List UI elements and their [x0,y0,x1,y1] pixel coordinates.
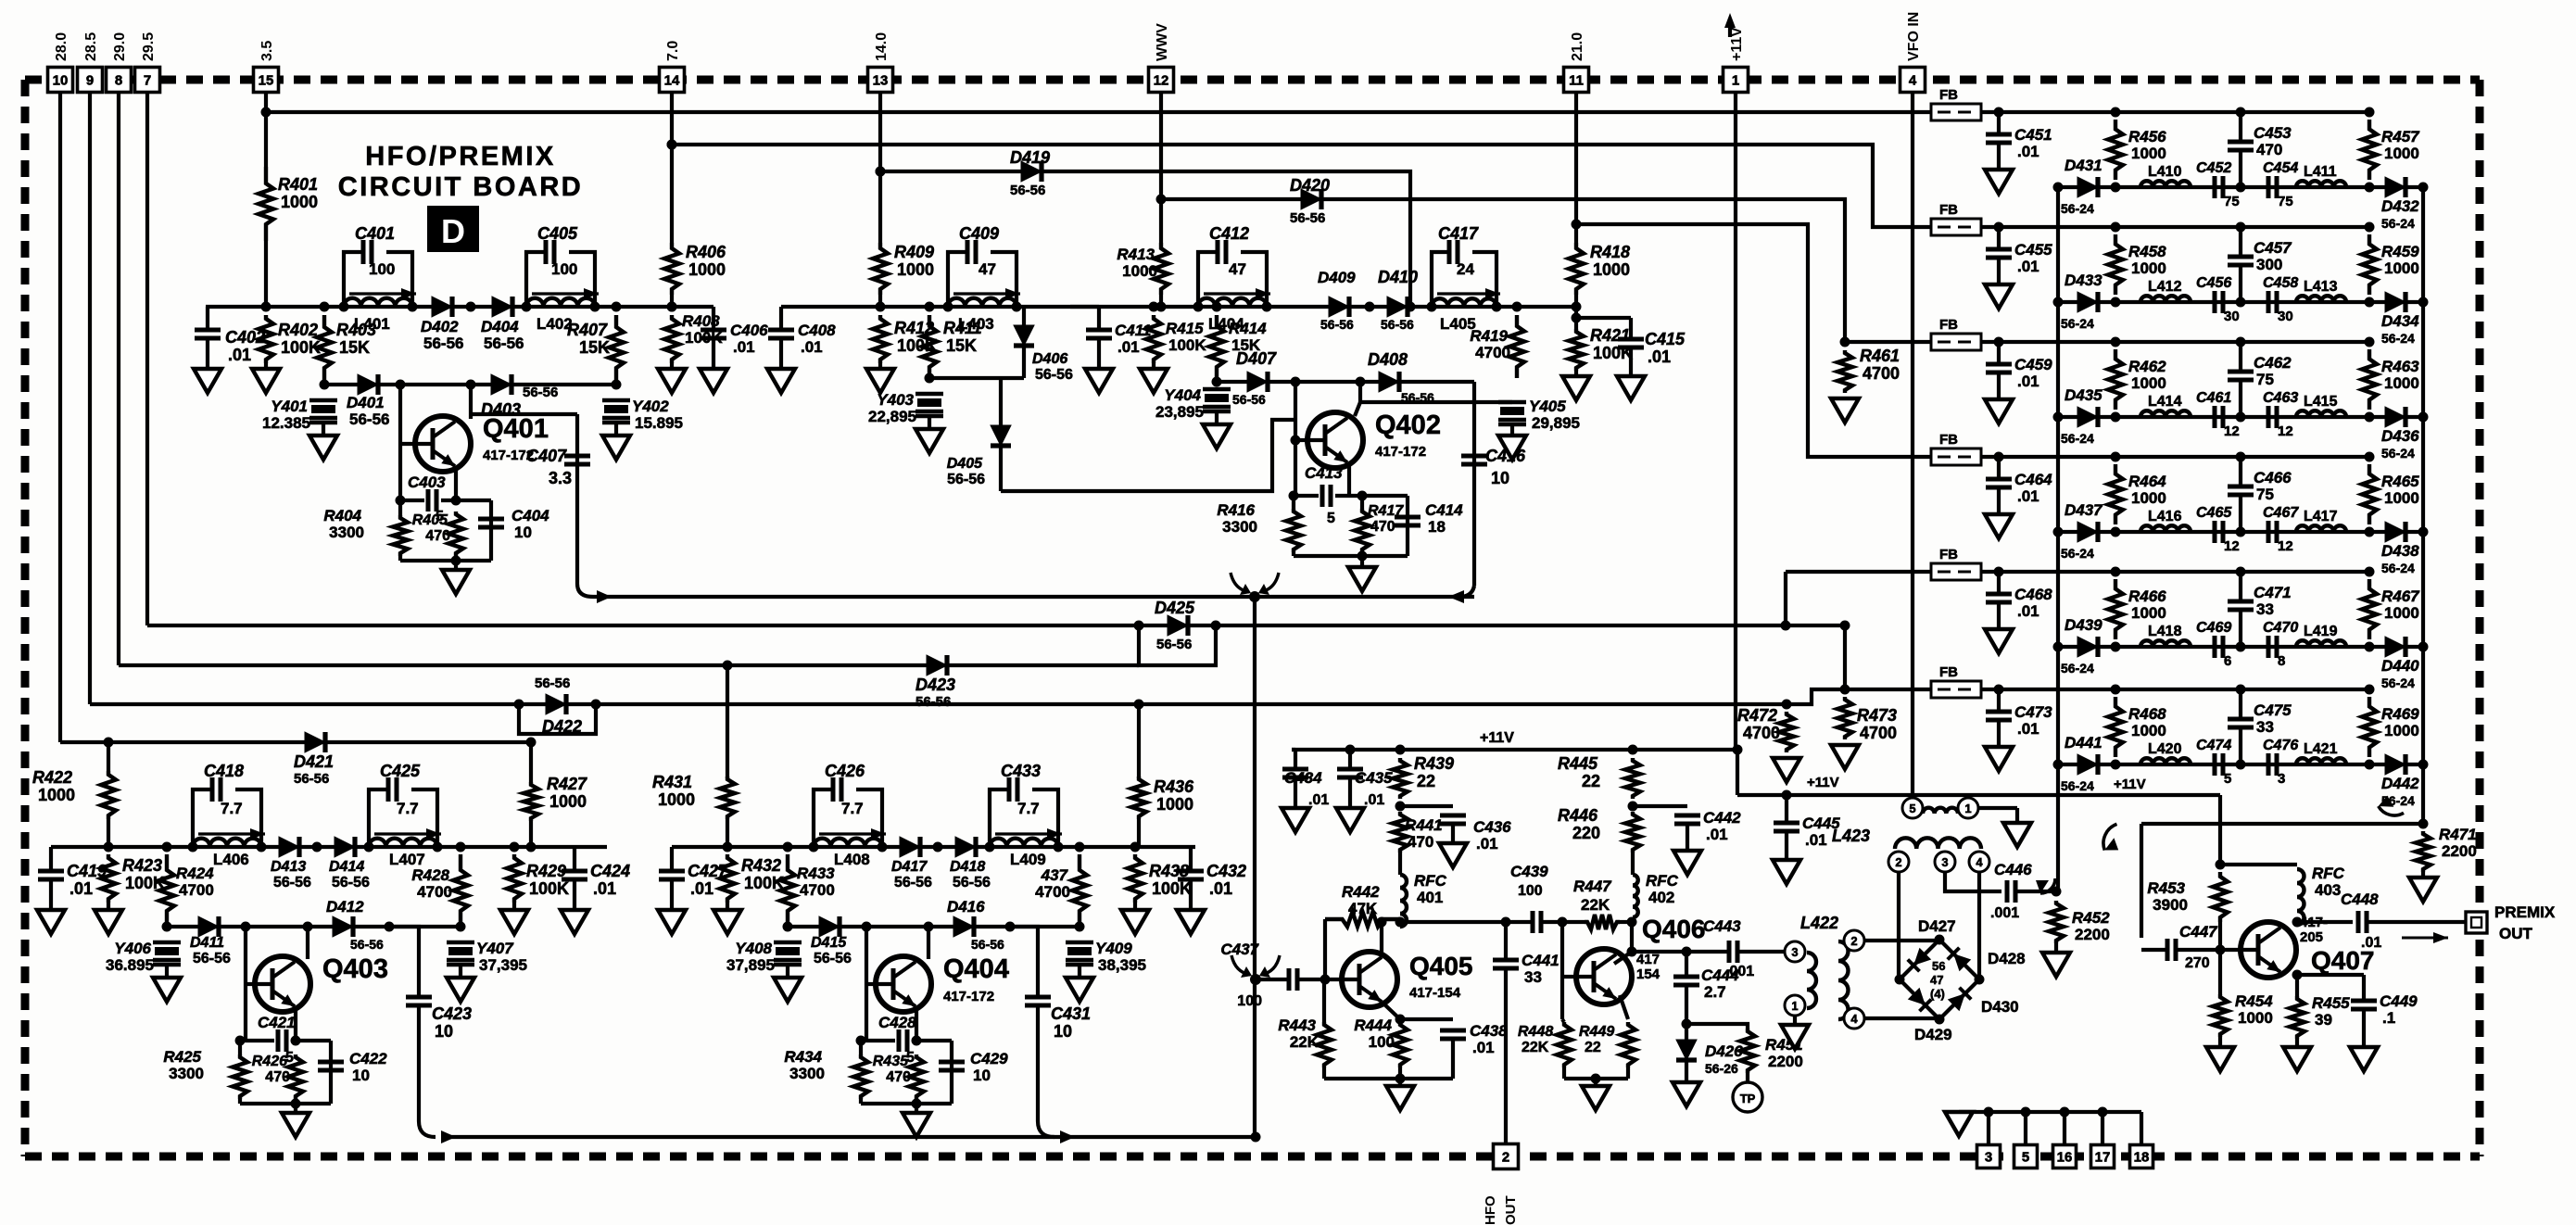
svg-text:R416: R416 [1217,501,1255,519]
svg-text:33: 33 [1524,968,1542,986]
svg-text:C408: C408 [798,322,836,339]
svg-text:7: 7 [144,73,151,89]
svg-text:36.895: 36.895 [106,956,154,974]
svg-text:FB: FB [1939,202,1958,218]
svg-text:2: 2 [1850,934,1857,948]
svg-text:D419: D419 [1010,148,1050,167]
svg-text:R449: R449 [1579,1024,1614,1040]
svg-text:30: 30 [2224,309,2240,324]
svg-text:D418: D418 [950,859,985,875]
svg-text:270: 270 [2185,955,2210,971]
svg-text:R418: R418 [1590,243,1630,261]
svg-text:Y402: Y402 [632,398,669,415]
svg-text:300: 300 [2256,256,2282,273]
svg-text:R446: R446 [1558,806,1598,825]
svg-text:R468: R468 [2128,705,2166,723]
svg-text:417-: 417- [2300,915,2328,930]
svg-text:C425: C425 [380,762,421,780]
svg-text:R458: R458 [2128,243,2166,260]
svg-text:C421: C421 [258,1014,296,1031]
svg-text:100K: 100K [1168,336,1206,354]
svg-text:470: 470 [1408,833,1433,851]
svg-text:R441: R441 [1405,816,1443,834]
svg-text:R465: R465 [2381,473,2419,490]
svg-text:VFO IN: VFO IN [1906,12,1922,61]
svg-text:Y407: Y407 [476,940,514,957]
svg-text:7.0: 7.0 [665,41,681,61]
svg-text:22K: 22K [1290,1033,1320,1051]
svg-text:.01: .01 [2017,720,2039,738]
svg-text:R436: R436 [1154,777,1194,796]
svg-text:56-56: 56-56 [1320,317,1354,332]
svg-text:D411: D411 [190,935,224,951]
svg-text:C464: C464 [2014,471,2052,488]
svg-text:47: 47 [1930,973,1943,987]
svg-text:10: 10 [352,1067,370,1084]
svg-text:C439: C439 [1510,863,1548,880]
svg-text:417: 417 [1636,952,1660,967]
svg-text:L411: L411 [2304,164,2337,180]
svg-text:56-56: 56-56 [1156,637,1192,652]
svg-text:56-56: 56-56 [193,951,231,966]
svg-text:Q402: Q402 [1375,410,1441,440]
svg-text:56-56: 56-56 [915,694,951,710]
svg-text:R472: R472 [1737,706,1777,725]
svg-text:R424: R424 [176,865,214,882]
svg-text:R405: R405 [412,512,448,528]
svg-text:56-56: 56-56 [894,875,932,890]
svg-text:1000: 1000 [658,790,695,809]
svg-text:D441: D441 [2065,734,2102,751]
svg-text:22: 22 [1585,1040,1601,1055]
svg-text:403: 403 [2315,881,2341,899]
svg-text:1000: 1000 [281,193,318,211]
svg-text:56-24: 56-24 [2381,331,2415,346]
svg-text:D410: D410 [1378,268,1418,286]
svg-text:100: 100 [369,260,395,278]
svg-text:R425: R425 [163,1048,201,1066]
svg-text:1000: 1000 [1593,260,1630,279]
svg-text:22: 22 [1417,772,1435,790]
svg-text:D433: D433 [2065,272,2102,289]
svg-text:R422: R422 [32,768,72,787]
svg-text:205: 205 [2300,929,2323,945]
svg-text:R429: R429 [526,862,566,880]
svg-text:7.7: 7.7 [841,800,864,817]
svg-text:5: 5 [1327,511,1335,526]
svg-text:C456: C456 [2196,275,2231,291]
svg-text:Q406: Q406 [1642,915,1706,943]
svg-text:.01: .01 [69,879,93,898]
svg-text:R419: R419 [1470,327,1508,345]
svg-text:1000: 1000 [2384,259,2419,277]
svg-text:5: 5 [2224,771,2231,787]
svg-text:D414: D414 [329,859,364,875]
svg-text:L415: L415 [2304,394,2338,410]
svg-text:56-56: 56-56 [953,875,991,890]
svg-text:30: 30 [2278,309,2293,324]
svg-text:D427: D427 [1918,917,1956,935]
svg-text:1000: 1000 [549,792,587,811]
svg-text:R448: R448 [1518,1024,1553,1040]
svg-text:D431: D431 [2065,157,2102,174]
svg-text:56-56: 56-56 [332,875,370,890]
svg-text:C436: C436 [1473,818,1511,836]
svg-text:.01: .01 [801,338,823,356]
svg-text:Q403: Q403 [322,954,388,984]
svg-text:3: 3 [1791,945,1798,959]
svg-text:56-24: 56-24 [2061,546,2094,561]
svg-text:C452: C452 [2196,160,2231,176]
svg-text:10: 10 [435,1022,453,1041]
svg-text:R444: R444 [1354,1017,1392,1034]
svg-text:Q407: Q407 [2311,946,2375,975]
svg-text:33: 33 [2256,718,2274,736]
svg-text:14.0: 14.0 [874,32,890,61]
svg-text:8: 8 [2278,653,2285,669]
svg-text:L401: L401 [354,315,390,333]
svg-text:Y401: Y401 [271,398,308,415]
svg-text:100K: 100K [1152,879,1192,898]
svg-text:7.7: 7.7 [397,800,419,817]
svg-text:56-56: 56-56 [947,472,985,487]
svg-text:C414: C414 [1425,501,1463,519]
svg-text:.01: .01 [733,338,755,356]
svg-text:402: 402 [1648,889,1674,906]
svg-text:15K: 15K [579,338,610,357]
svg-text:C441: C441 [1522,952,1559,969]
svg-text:FB: FB [1939,87,1958,103]
svg-text:3300: 3300 [329,524,364,541]
svg-text:C469: C469 [2196,620,2231,636]
svg-text:56-56: 56-56 [350,937,384,952]
svg-text:15K: 15K [339,338,370,357]
svg-text:56-24: 56-24 [2061,661,2094,676]
svg-text:R426: R426 [252,1054,287,1069]
svg-text:437: 437 [1041,866,1069,884]
svg-text:3: 3 [2278,771,2285,787]
svg-text:2200: 2200 [2442,842,2477,860]
svg-text:1000: 1000 [2131,259,2166,277]
svg-text:D438: D438 [2381,542,2419,560]
svg-text:D435: D435 [2065,386,2102,404]
svg-text:7.7: 7.7 [1017,800,1040,817]
svg-text:D407: D407 [1236,349,1277,368]
svg-text:3300: 3300 [789,1065,825,1082]
svg-text:3900: 3900 [2153,896,2188,914]
svg-text:8: 8 [115,73,122,89]
svg-text:4700: 4700 [800,881,835,899]
svg-text:56-56: 56-56 [971,937,1004,952]
svg-text:56-56: 56-56 [1290,210,1325,226]
svg-text:1: 1 [1791,999,1798,1013]
svg-text:R402: R402 [278,321,318,339]
svg-text:56-24: 56-24 [2061,201,2094,216]
svg-text:L416: L416 [2148,509,2182,524]
svg-text:Y405: Y405 [1529,398,1566,415]
svg-text:C471: C471 [2254,584,2292,601]
svg-text:D428: D428 [1988,950,2026,967]
svg-text:37,895: 37,895 [726,956,775,974]
svg-text:15: 15 [259,73,274,89]
svg-text:.01: .01 [2017,143,2039,160]
svg-text:HFO: HFO [1483,1195,1498,1225]
svg-text:R423: R423 [122,856,162,875]
svg-text:15.895: 15.895 [635,414,683,432]
svg-text:FB: FB [1939,547,1958,562]
svg-text:3: 3 [1941,855,1948,869]
svg-text:C466: C466 [2254,469,2292,486]
svg-text:56-56: 56-56 [535,676,570,691]
svg-text:C437: C437 [1220,941,1259,958]
svg-text:C465: C465 [2196,505,2232,521]
svg-text:4: 4 [1909,73,1917,89]
svg-text:39: 39 [2315,1011,2332,1029]
svg-text:56-56: 56-56 [484,335,524,352]
svg-text:154: 154 [1636,966,1661,982]
svg-text:21.0: 21.0 [1570,32,1585,61]
svg-text:4700: 4700 [1035,883,1070,901]
svg-text:C438: C438 [1470,1022,1508,1040]
svg-text:R459: R459 [2381,243,2419,260]
svg-text:C429: C429 [970,1050,1008,1067]
svg-text:3300: 3300 [169,1065,204,1082]
svg-text:56-26: 56-26 [1705,1061,1738,1076]
svg-text:L414: L414 [2148,394,2182,410]
svg-text:1000: 1000 [38,786,75,804]
svg-text:470: 470 [886,1069,911,1085]
svg-text:R434: R434 [784,1048,822,1066]
svg-text:56-24: 56-24 [2381,676,2415,690]
svg-text:56-24: 56-24 [2381,216,2415,231]
svg-text:D405: D405 [947,456,983,472]
svg-text:12: 12 [2278,538,2293,554]
svg-text:WWV: WWV [1155,23,1170,61]
svg-text:C423: C423 [432,1004,472,1023]
svg-text:C404: C404 [511,507,549,524]
svg-text:D423: D423 [915,676,955,694]
svg-text:.01: .01 [1805,831,1827,849]
svg-text:C428: C428 [878,1014,916,1031]
svg-text:470: 470 [1370,519,1395,535]
svg-text:C463: C463 [2263,390,2298,406]
svg-text:1: 1 [1732,73,1739,89]
svg-text:Q404: Q404 [943,954,1009,984]
svg-text:56: 56 [1932,959,1945,973]
svg-text:47: 47 [979,260,996,278]
svg-text:417-172: 417-172 [1375,444,1426,460]
svg-text:L410: L410 [2148,164,2182,180]
svg-text:75: 75 [2278,194,2293,209]
svg-text:1000: 1000 [1122,262,1157,280]
svg-text:R455: R455 [2312,994,2350,1012]
svg-text:18: 18 [1428,518,1446,536]
svg-text:R431: R431 [652,773,692,791]
svg-text:L422: L422 [1800,914,1838,932]
svg-text:R462: R462 [2128,358,2166,375]
svg-text:47K: 47K [1348,900,1378,917]
svg-text:29.5: 29.5 [141,32,157,61]
svg-text:C412: C412 [1209,224,1249,243]
svg-text:4700: 4700 [1475,344,1510,361]
svg-text:C462: C462 [2254,354,2292,372]
svg-text:R456: R456 [2128,128,2166,145]
svg-text:56-56: 56-56 [1035,367,1073,383]
svg-text:15K: 15K [946,336,977,355]
svg-text:C434: C434 [1284,769,1322,787]
svg-text:470: 470 [425,528,450,544]
svg-text:56-56: 56-56 [1010,183,1045,198]
svg-text:100: 100 [551,260,577,278]
svg-text:D409: D409 [1318,269,1356,286]
svg-text:D439: D439 [2065,616,2102,634]
svg-text:4700: 4700 [1743,724,1780,742]
svg-text:L420: L420 [2148,741,2182,757]
svg-text:R439: R439 [1414,754,1454,773]
svg-text:1000: 1000 [2384,604,2419,622]
svg-text:FB: FB [1939,317,1958,333]
svg-text:CIRCUIT BOARD: CIRCUIT BOARD [338,172,584,202]
svg-text:L412: L412 [2148,279,2182,295]
svg-text:FB: FB [1939,432,1958,448]
svg-text:Q401: Q401 [483,414,549,444]
svg-text:TP: TP [1740,1092,1756,1105]
svg-text:75: 75 [2256,371,2274,388]
svg-text:R442: R442 [1342,883,1380,901]
svg-text:C447: C447 [2179,923,2218,941]
svg-text:C418: C418 [204,762,244,780]
svg-text:220: 220 [1572,824,1600,842]
svg-text:56-24: 56-24 [2381,561,2415,575]
svg-text:C431: C431 [1051,1004,1091,1023]
svg-text:L408: L408 [834,851,870,868]
svg-text:.01: .01 [2017,373,2039,390]
svg-text:R415: R415 [1166,320,1204,337]
svg-text:56-56: 56-56 [349,410,389,428]
svg-text:C449: C449 [2380,992,2418,1010]
svg-text:D417: D417 [891,859,928,875]
svg-text:PREMIX: PREMIX [2494,903,2556,921]
svg-text:417-154: 417-154 [1409,985,1461,1001]
svg-text:7.7: 7.7 [221,800,243,817]
svg-text:R453: R453 [2147,879,2185,897]
svg-text:R457: R457 [2381,128,2420,145]
svg-text:D415: D415 [811,935,847,951]
svg-text:+11V: +11V [2114,777,2146,792]
svg-text:13: 13 [873,73,889,89]
svg-text:.01: .01 [2017,602,2039,620]
svg-text:1000: 1000 [2131,489,2166,507]
svg-text:1000: 1000 [2384,489,2419,507]
svg-text:401: 401 [1417,889,1443,906]
svg-text:R427: R427 [547,775,587,793]
svg-text:10: 10 [514,524,532,541]
svg-text:C455: C455 [2014,241,2052,259]
svg-text:RFC: RFC [1414,872,1447,890]
svg-text:4: 4 [1850,1012,1858,1026]
svg-text:1: 1 [1964,802,1971,815]
svg-text:16: 16 [2057,1150,2073,1166]
svg-text:1000: 1000 [2384,722,2419,739]
svg-text:D: D [441,212,465,250]
svg-text:.01: .01 [1706,826,1728,843]
svg-text:R435: R435 [873,1054,909,1069]
svg-text:C432: C432 [1206,862,1246,880]
svg-text:56-24: 56-24 [2381,446,2415,461]
svg-text:C403: C403 [408,474,446,491]
svg-text:56-56: 56-56 [273,875,311,890]
svg-text:C401: C401 [355,224,395,243]
svg-text:L404: L404 [1208,315,1244,333]
svg-text:17: 17 [2095,1150,2111,1166]
svg-text:C442: C442 [1703,809,1741,827]
svg-text:24: 24 [1457,260,1474,278]
svg-text:4700: 4700 [179,881,214,899]
svg-text:Y403: Y403 [877,391,914,409]
svg-text:100: 100 [1369,1033,1395,1051]
svg-text:C454: C454 [2263,160,2298,176]
svg-text:6: 6 [2224,653,2231,669]
svg-text:L403: L403 [958,315,994,333]
svg-text:R432: R432 [741,856,781,875]
svg-text:470: 470 [2256,141,2282,158]
svg-text:14: 14 [664,73,680,89]
svg-text:R471: R471 [2439,826,2477,843]
svg-text:100: 100 [1237,993,1262,1009]
svg-text:R433: R433 [797,865,835,882]
svg-text:C458: C458 [2263,275,2298,291]
svg-text:75: 75 [2256,486,2274,503]
svg-text:1000: 1000 [2131,604,2166,622]
svg-text:56-56: 56-56 [1232,392,1266,407]
svg-text:47: 47 [1229,260,1246,278]
svg-text:D442: D442 [2381,775,2419,792]
svg-text:5: 5 [1909,802,1915,815]
svg-text:R406: R406 [686,243,726,261]
svg-text:C476: C476 [2263,738,2298,753]
svg-text:4: 4 [1976,855,1983,869]
svg-text:RFC: RFC [1646,872,1679,890]
svg-text:D420: D420 [1290,176,1330,195]
svg-text:D401: D401 [347,394,385,411]
svg-text:R413: R413 [1117,246,1155,263]
svg-text:D430: D430 [1981,998,2019,1016]
svg-text:12.385: 12.385 [262,414,310,432]
svg-text:C473: C473 [2014,703,2052,721]
svg-text:D434: D434 [2381,312,2419,330]
svg-text:Y404: Y404 [1164,386,1201,404]
svg-text:R409: R409 [894,243,934,261]
svg-text:56-56: 56-56 [523,385,558,400]
svg-text:RFC: RFC [2312,865,2345,882]
svg-text:R469: R469 [2381,705,2419,723]
svg-text:10: 10 [53,73,69,89]
svg-text:C459: C459 [2014,356,2052,373]
svg-text:L406: L406 [213,851,249,868]
svg-text:1000: 1000 [2384,145,2419,162]
svg-text:C461: C461 [2196,390,2231,406]
svg-text:4700: 4700 [1863,364,1900,383]
svg-text:C424: C424 [590,862,630,880]
svg-text:R401: R401 [278,175,318,194]
svg-text:R407: R407 [567,321,608,339]
svg-text:R463: R463 [2381,358,2419,375]
svg-text:(4): (4) [1930,987,1945,1001]
svg-text:56-24: 56-24 [2061,778,2094,793]
svg-text:D413: D413 [271,859,306,875]
svg-text:56-24: 56-24 [2061,431,2094,446]
svg-text:R421: R421 [1590,326,1630,345]
